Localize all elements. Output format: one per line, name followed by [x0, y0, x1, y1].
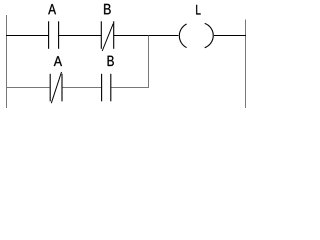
contact B (NC) right bar: [113, 21, 115, 49]
wire rung2 contact B2 to branch: [111, 87, 149, 89]
coil L right arc: [205, 23, 214, 47]
wire branch vertical: [148, 36, 150, 89]
wire rung1 contact A to contact B: [59, 35, 101, 37]
wire rung1 rail to contact A: [6, 35, 49, 37]
coil L left arc: [179, 24, 186, 48]
label A rung2: [54, 56, 62, 66]
label B rung2: [108, 56, 114, 66]
contact A (NO) right bar: [58, 21, 60, 49]
right power rail: [245, 20, 247, 109]
wire rung2 contact A2 to contact B2: [62, 87, 101, 89]
label B rung1: [104, 4, 111, 14]
left power rail: [6, 15, 8, 108]
contact A (NO) left bar: [48, 21, 50, 49]
label L: [196, 5, 200, 15]
contact B2 (NO) left bar: [101, 74, 103, 102]
contact B (NC) left bar: [100, 21, 102, 49]
wire rung1 contact B to coil L: [114, 35, 178, 37]
contact B (NC) slash: [102, 24, 113, 51]
contact A2 (NC) slash: [51, 72, 61, 103]
contact A2 (NC) right bar: [61, 74, 63, 102]
wire rung2 rail to contact A2: [6, 87, 50, 89]
wire rung1 coil L to right rail: [214, 35, 246, 37]
contact B2 (NO) right bar: [110, 74, 112, 102]
label A rung1: [48, 4, 56, 14]
contact A2 (NC) left bar: [49, 74, 51, 102]
